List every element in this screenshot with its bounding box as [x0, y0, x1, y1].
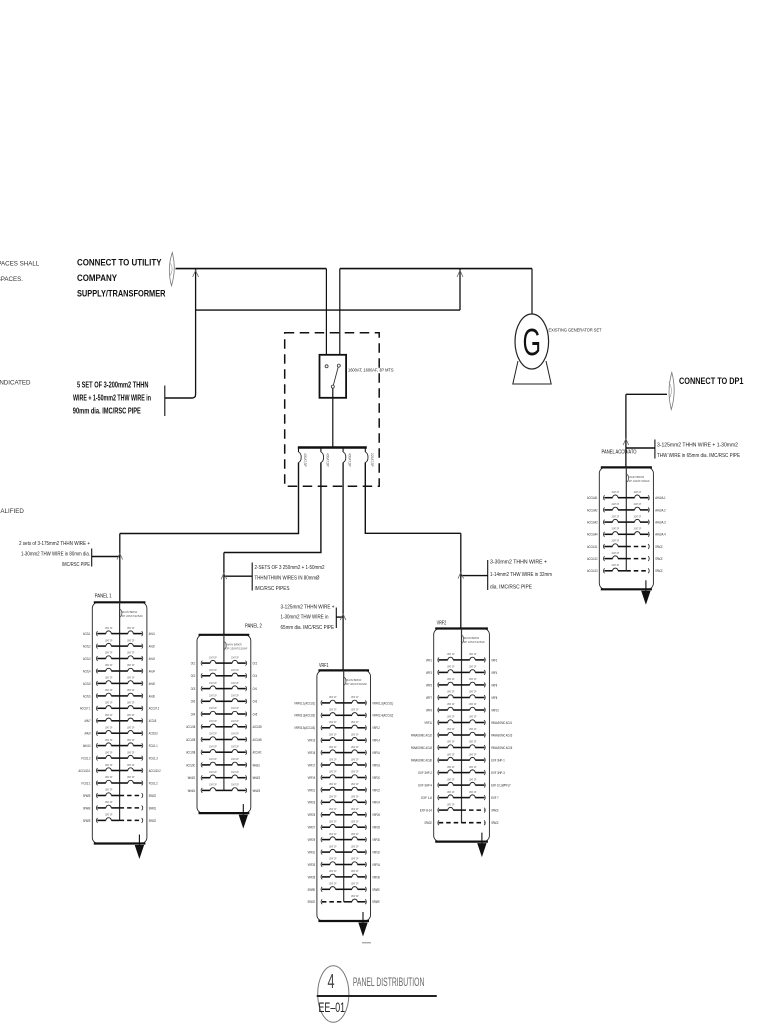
svg-text:20AT 2P: 20AT 2P — [634, 490, 642, 494]
svg-text:VRF2: VRF2 — [491, 658, 497, 662]
wire: MTS output — [332, 388, 334, 447]
svg-text:SPACE: SPACE — [655, 545, 663, 549]
svg-text:15AT 2P: 15AT 2P — [329, 708, 337, 712]
svg-text:15AT 2P: 15AT 2P — [447, 665, 455, 669]
svg-text:VRF01.1(ACCU1): VRF01.1(ACCU1) — [294, 701, 315, 705]
svg-text:15AT 2P: 15AT 2P — [127, 638, 135, 642]
svg-text:15AT 2P: 15AT 2P — [127, 775, 135, 779]
svg-text:EE–01: EE–01 — [319, 999, 346, 1015]
svg-text:20AT 2P: 20AT 2P — [231, 770, 239, 774]
branch circuit row: ACCU4 / AHU4 — [96, 669, 97, 674]
svg-text:EXF 3HP-4: EXF 3HP-4 — [418, 784, 432, 788]
svg-text:CH2: CH2 — [191, 700, 196, 704]
svg-text:ACCU3B: ACCU3B — [186, 751, 196, 755]
svg-text:AHU4: AHU4 — [149, 669, 155, 673]
svg-text:15AT 2P: 15AT 2P — [351, 832, 359, 836]
svg-text:15AT 2P: 15AT 2P — [105, 626, 113, 630]
svg-text:15AT 2P: 15AT 2P — [105, 651, 113, 655]
svg-text:15AT 2P: 15AT 2P — [105, 813, 113, 817]
svg-text:AHU9: AHU9 — [85, 732, 91, 736]
svg-text:AHU1: AHU1 — [149, 632, 155, 636]
svg-text:15AT 2P: 15AT 2P — [329, 832, 337, 836]
svg-text:15AT 2P: 15AT 2P — [127, 626, 135, 630]
svg-text:15AT 2P: 15AT 2P — [447, 790, 455, 794]
svg-text:15AT 2P: 15AT 2P — [329, 807, 337, 811]
svg-text:20AT 2P: 20AT 2P — [634, 502, 642, 506]
svg-text:COMPANY: COMPANY — [77, 273, 117, 283]
svg-text:15AT 2P: 15AT 2P — [127, 676, 135, 680]
junction marker — [457, 271, 463, 278]
svg-text:400AT,3P: 400AT,3P — [348, 453, 352, 467]
svg-text:VRF17: VRF17 — [308, 763, 316, 767]
svg-text:15AT 2P: 15AT 2P — [127, 701, 135, 705]
branch circuit row: SPARE / SPARE — [321, 887, 322, 892]
svg-text:15AT 2P: 15AT 2P — [469, 740, 477, 744]
branch circuit row: ACCU7.1 / ACCU7.2 — [96, 706, 97, 711]
svg-text:VRF25: VRF25 — [308, 813, 316, 817]
svg-text:VRF33: VRF33 — [308, 863, 316, 867]
svg-text:SPACE: SPACE — [655, 569, 663, 573]
svg-text:FCU1.2: FCU1.2 — [149, 781, 158, 785]
svg-text:ACCU1: ACCU1 — [83, 632, 91, 636]
svg-text:VRF6: VRF6 — [491, 683, 497, 687]
svg-text:15AT 2P: 15AT 2P — [351, 757, 359, 761]
svg-text:CONNECT TO UTILITY: CONNECT TO UTILITY — [77, 258, 162, 268]
svg-text:SPARE: SPARE — [83, 806, 91, 810]
svg-text:15AT 2P: 15AT 2P — [447, 690, 455, 694]
svg-text:VRF7: VRF7 — [426, 696, 432, 700]
svg-text:20AT 2P: 20AT 2P — [612, 526, 620, 530]
svg-text:15AT 2P: 15AT 2P — [447, 752, 455, 756]
svg-text:VRF2: VRF2 — [437, 621, 447, 627]
svg-text:ACCU7.1: ACCU7.1 — [80, 707, 91, 711]
svg-text:20AT 2P: 20AT 2P — [612, 502, 620, 506]
svg-text:15AT 2P: 15AT 2P — [105, 800, 113, 804]
breaker CB2 on bus — [320, 449, 322, 453]
branch circuit row: FCU1.2 / FCU1.3 — [96, 756, 97, 761]
svg-text:15AT 2P: 15AT 2P — [105, 676, 113, 680]
svg-text:15AT 2P: 15AT 2P — [329, 819, 337, 823]
svg-text:15AT 2P: 15AT 2P — [329, 695, 337, 699]
svg-text:PANEL 1: PANEL 1 — [95, 594, 112, 600]
panel enclosure — [197, 635, 251, 813]
svg-text:ACCU2: ACCU2 — [83, 644, 91, 648]
panel VRF2 — [411, 621, 512, 858]
svg-text:20AT 2P: 20AT 2P — [231, 744, 239, 748]
svg-text:SPARE: SPARE — [308, 888, 316, 892]
svg-text:ACCU/11: ACCU/11 — [587, 545, 598, 549]
branch circuit row: OC1 / OC2 — [201, 661, 202, 666]
svg-text:15AT 2P: 15AT 2P — [329, 732, 337, 736]
wire: MTS input 1 drop — [325, 269, 327, 355]
svg-text:PANEL 2: PANEL 2 — [245, 624, 262, 630]
svg-text:20AT 2P: 20AT 2P — [231, 681, 239, 685]
svg-text:OC5: OC5 — [191, 687, 196, 691]
main breaker — [224, 641, 226, 650]
branch circuit row: VRF5 / VRF6 — [438, 683, 439, 688]
svg-text:20AT 2P: 20AT 2P — [209, 706, 217, 710]
panel VRF1 — [294, 663, 393, 937]
svg-text:ACCU10.1: ACCU10.1 — [79, 769, 91, 773]
svg-text:VRF4: VRF4 — [491, 671, 497, 675]
svg-text:15AT 2P: 15AT 2P — [105, 713, 113, 717]
branch circuit row: ACCU1 / AHU1 — [96, 631, 97, 636]
branch circuit row: OC5 / CH1 — [201, 686, 202, 691]
svg-text:VRF24: VRF24 — [372, 801, 380, 805]
svg-text:20AT 2P: 20AT 2P — [209, 732, 217, 736]
svg-text:SPACE: SPACE — [491, 821, 499, 825]
svg-text:20AT 2P: 20AT 2P — [231, 719, 239, 723]
svg-text:1-30mm2 THW WIRE in: 1-30mm2 THW WIRE in — [281, 615, 329, 621]
branch circuit row: PANASONIC ACU2 / PANASONIC ACU3 — [438, 733, 439, 738]
svg-text:OC4: OC4 — [253, 674, 258, 678]
svg-text:VRF9: VRF9 — [426, 708, 432, 712]
svg-text:15AT 2P: 15AT 2P — [447, 652, 455, 656]
svg-text:20AT 2P: 20AT 2P — [231, 783, 239, 787]
svg-text:15AT 2P: 15AT 2P — [329, 795, 337, 799]
svg-text:PANEL ACCU/ATO: PANEL ACCU/ATO — [602, 450, 637, 456]
svg-text:20AT 2P: 20AT 2P — [209, 681, 217, 685]
svg-text:15AT 2P: 15AT 2P — [329, 720, 337, 724]
svg-text:VRF29: VRF29 — [308, 838, 316, 842]
svg-text:VRF12: VRF12 — [372, 726, 380, 730]
svg-text:VRF32: VRF32 — [372, 850, 380, 854]
branch circuit row: VRF23 / VRF24 — [321, 800, 322, 805]
svg-text:WH&E1: WH&E1 — [253, 763, 261, 767]
svg-text:ACCU/A3: ACCU/A3 — [587, 520, 598, 524]
svg-text:IMC/RSC PIPES: IMC/RSC PIPES — [255, 586, 290, 592]
branch circuit row: ACCU/11 / SPACE — [603, 544, 604, 549]
svg-text:AHU/A.3: AHU/A.3 — [655, 520, 666, 524]
svg-text:VRF18: VRF18 — [372, 763, 380, 767]
panel enclosure — [317, 670, 371, 921]
svg-text:15AT 2P: 15AT 2P — [105, 688, 113, 692]
svg-text:20AT 2P: 20AT 2P — [209, 744, 217, 748]
svg-text:SPARE: SPARE — [372, 900, 380, 904]
branch circuit row: EXF 8-14 / SPACE — [438, 808, 439, 813]
svg-text:15AT 2P: 15AT 2P — [127, 725, 135, 729]
svg-text:15AT 2P: 15AT 2P — [127, 663, 135, 667]
svg-text:SPARE: SPARE — [83, 819, 91, 823]
wire: panel bus riser — [461, 629, 463, 823]
svg-text:VRF8: VRF8 — [491, 696, 497, 700]
svg-text:FCU1.1: FCU1.1 — [149, 744, 158, 748]
wire: vertical tie at right — [459, 269, 461, 311]
svg-text:VRF23: VRF23 — [308, 801, 316, 805]
panel enclosure — [599, 467, 653, 589]
svg-text:WH&E2: WH&E2 — [188, 776, 196, 780]
svg-text:VRF02.4(ACCU2): VRF02.4(ACCU2) — [372, 714, 393, 718]
wire: MTS input 2 drop — [339, 269, 341, 355]
branch circuit row: ACCU5 / AHU5 — [96, 681, 97, 686]
svg-text:ACCU6: ACCU6 — [83, 694, 91, 698]
svg-text:15AT 2P: 15AT 2P — [447, 677, 455, 681]
svg-text:15AT 2P: 15AT 2P — [351, 745, 359, 749]
svg-text:20AT 2P: 20AT 2P — [612, 539, 620, 543]
svg-text:3P 100AT/100AF: 3P 100AT/100AF — [629, 479, 650, 483]
svg-text:EXF 3HP-2: EXF 3HP-2 — [418, 771, 432, 775]
breaker CB3 on bus — [342, 449, 344, 453]
stray tick — [362, 942, 371, 944]
branch circuit row: FCU2.1 / FCU1.2 — [96, 781, 97, 786]
svg-text:225AT,3P: 225AT,3P — [370, 453, 374, 467]
svg-text:15AT 2P: 15AT 2P — [469, 715, 477, 719]
branch circuit row: VRF17 / VRF18 — [321, 763, 322, 768]
main breaker — [344, 677, 346, 686]
svg-text:2-SETS OF 3 250mm2 + 1-50mm2: 2-SETS OF 3 250mm2 + 1-50mm2 — [255, 565, 325, 571]
svg-text:SPACE: SPACE — [149, 819, 157, 823]
svg-text:15AT 2P: 15AT 2P — [447, 740, 455, 744]
svg-text:EXF 8-14: EXF 8-14 — [420, 809, 432, 813]
branch circuit row: VRF31 / VRF32 — [321, 850, 322, 855]
svg-text:THW WIRE in 65mm dia. IMC/RSC: THW WIRE in 65mm dia. IMC/RSC PIPE — [657, 453, 740, 459]
svg-text:AHU3: AHU3 — [149, 657, 155, 661]
svg-text:15AT 2P: 15AT 2P — [329, 745, 337, 749]
svg-text:15AT 2P: 15AT 2P — [351, 695, 359, 699]
svg-text:15AT 2P: 15AT 2P — [105, 763, 113, 767]
svg-text:15AT 2P: 15AT 2P — [469, 677, 477, 681]
svg-text:15AT 2P: 15AT 2P — [447, 765, 455, 769]
svg-text:15AT 2P: 15AT 2P — [329, 882, 337, 886]
svg-text:15AT 2P: 15AT 2P — [351, 732, 359, 736]
svg-text:dia. IMC/RSC PIPE: dia. IMC/RSC PIPE — [490, 585, 532, 591]
branch circuit row: VRF13 / VRF14 — [321, 738, 322, 743]
svg-text:PANASONIC ACU2: PANASONIC ACU2 — [411, 733, 432, 737]
branch circuit row: ACCU3C / WH&amp;E1 — [201, 763, 202, 768]
svg-text:THHN/THWN WIRES IN 80mmØ: THHN/THWN WIRES IN 80mmØ — [255, 575, 321, 581]
branch circuit row: VRF9 / VRF10 — [438, 708, 439, 713]
wire: utility line to MTS input 1 — [176, 268, 327, 270]
svg-text:15AT 2P: 15AT 2P — [105, 638, 113, 642]
arrow to utility supply — [169, 253, 174, 286]
svg-text:AHU/A.4: AHU/A.4 — [655, 533, 666, 537]
svg-text:AHU7: AHU7 — [85, 719, 91, 723]
wire: panel bus riser — [625, 467, 627, 570]
svg-text:OC3: OC3 — [191, 674, 196, 678]
svg-text:PANASONIC ACU6: PANASONIC ACU6 — [411, 758, 432, 762]
branch circuit row: WH&amp;E4 / WH&amp;E5 — [201, 788, 202, 793]
wire: cross tie (lower horizontal) — [196, 309, 460, 311]
panel enclosure — [434, 629, 490, 842]
svg-text:1-14mm2 THW WIRE in 32mm: 1-14mm2 THW WIRE in 32mm — [490, 572, 552, 578]
svg-text:15AT 2P: 15AT 2P — [105, 788, 113, 792]
svg-text:ACCU/A4: ACCU/A4 — [587, 533, 598, 537]
branch circuit row: CH2 / CH3 — [201, 699, 202, 704]
svg-text:15AT 2P: 15AT 2P — [469, 665, 477, 669]
svg-text:2 sets of 3-175mm2 THHN WIRE +: 2 sets of 3-175mm2 THHN WIRE + — [19, 541, 90, 547]
svg-text:15AT 2P: 15AT 2P — [329, 757, 337, 761]
generator G1 circle — [515, 314, 549, 369]
branch circuit row: SPACE / SPACE — [438, 820, 439, 825]
svg-text:O SPACES.: O SPACES. — [0, 276, 23, 283]
svg-text:EXF 10,1WPFLY: EXF 10,1WPFLY — [491, 784, 511, 788]
svg-text:15AT 2P: 15AT 2P — [127, 750, 135, 754]
branch circuit row: ACCU2 / AHU2 — [96, 644, 97, 649]
svg-text:VRF3: VRF3 — [426, 671, 432, 675]
branch circuit row: EXF 3HP-2 / EXF 3HP-3 — [438, 770, 439, 775]
svg-text:ACCU/13: ACCU/13 — [587, 569, 598, 573]
branch circuit row: SPARE / SPACE — [96, 818, 97, 823]
svg-text:15AT 2P: 15AT 2P — [105, 775, 113, 779]
svg-text:VRF5: VRF5 — [426, 683, 432, 687]
feed-through arrow — [138, 835, 140, 846]
svg-text:20AT 2P: 20AT 2P — [231, 757, 239, 761]
svg-text:VRF36: VRF36 — [372, 875, 380, 879]
svg-text:20AT 2P: 20AT 2P — [231, 655, 239, 659]
branch circuit row: ACCU10.1 / ACCU10.2 — [96, 768, 97, 773]
branch circuit row: VRF3 / VRF4 — [438, 670, 439, 675]
svg-text:WH&E4: WH&E4 — [188, 789, 196, 793]
branch circuit row: VRF35 / VRF36 — [321, 875, 322, 880]
branch circuit row: ACCU/A2 / AHU/A.2 — [603, 508, 604, 513]
svg-text:VRF28: VRF28 — [372, 826, 380, 830]
svg-text:PANASONIC ACU4: PANASONIC ACU4 — [411, 746, 432, 750]
svg-text:VRF19: VRF19 — [308, 776, 316, 780]
wire: CB4 to VRF2 — [365, 463, 461, 534]
svg-text:20AT 2P: 20AT 2P — [612, 514, 620, 518]
svg-text:15AT 2P: 15AT 2P — [469, 702, 477, 706]
svg-text:ACCU4C: ACCU4C — [253, 751, 262, 755]
svg-text:15AT 2P: 15AT 2P — [127, 688, 135, 692]
wire: Panel 2 feeder drop — [223, 553, 225, 635]
svg-text:ACCU/A2: ACCU/A2 — [587, 508, 598, 512]
svg-text:ACCU10.2: ACCU10.2 — [149, 769, 161, 773]
svg-text:IMC/RSC PIPE: IMC/RSC PIPE — [62, 562, 90, 568]
svg-text:20AT 2P: 20AT 2P — [209, 757, 217, 761]
svg-text:15AT 2P: 15AT 2P — [351, 844, 359, 848]
svg-text:WIRE + 1-50mm2 THW WIRE in: WIRE + 1-50mm2 THW WIRE in — [73, 394, 151, 403]
svg-text:VRF15: VRF15 — [308, 751, 316, 755]
svg-text:ACCU4: ACCU4 — [83, 669, 91, 673]
svg-text:15AT 2P: 15AT 2P — [447, 777, 455, 781]
branch circuit row: EXF 3HP-4 / EXF 10,1WPFLY — [438, 783, 439, 788]
svg-text:15AT 2P: 15AT 2P — [105, 725, 113, 729]
svg-text:20AT 2P: 20AT 2P — [231, 668, 239, 672]
svg-text:CH3: CH3 — [253, 700, 258, 704]
svg-text:UALIFIED: UALIFIED — [0, 508, 24, 515]
svg-text:VRF26: VRF26 — [372, 813, 380, 817]
svg-text:15AT 2P: 15AT 2P — [351, 819, 359, 823]
svg-text:5 SET OF 3-200mm2 THHN: 5 SET OF 3-200mm2 THHN — [77, 381, 149, 390]
svg-text:SPACE: SPACE — [491, 809, 499, 813]
svg-text:65mm dia. IMC/RSC PIPE: 65mm dia. IMC/RSC PIPE — [281, 625, 335, 631]
branch circuit row: VRF15 / VRF16 — [321, 750, 322, 755]
svg-text:FCU1.2: FCU1.2 — [82, 757, 91, 761]
bus bar — [298, 446, 367, 448]
branch circuit row: SPARE / SPACE — [96, 793, 97, 798]
svg-text:VRF20: VRF20 — [372, 776, 380, 780]
svg-text:20AT 2P: 20AT 2P — [231, 732, 239, 736]
svg-text:ACCU10: ACCU10 — [149, 732, 158, 736]
branch circuit row: EXF 1-6 / EXF 7 — [438, 795, 439, 800]
svg-text:CONNECT TO DP1: CONNECT TO DP1 — [679, 376, 744, 386]
svg-text:15AT 2P: 15AT 2P — [127, 738, 135, 742]
feed-through arrow — [242, 804, 244, 815]
svg-text:15AT 2P: 15AT 2P — [105, 738, 113, 742]
title bubble: detail 4 / EE-01 — [318, 966, 349, 1023]
feed-through arrow — [362, 912, 364, 923]
breaker CB4 on bus — [364, 449, 366, 453]
svg-text:OC2: OC2 — [253, 662, 258, 666]
svg-text:CH5: CH5 — [253, 712, 258, 716]
svg-text:SPACE: SPACE — [149, 794, 157, 798]
wire: CB1 to Panel 1 — [120, 463, 299, 534]
svg-text:EXF 7: EXF 7 — [491, 796, 499, 800]
svg-text:15AT 2P: 15AT 2P — [127, 713, 135, 717]
wire: panel bus riser — [343, 670, 345, 901]
svg-text:ACCU1B: ACCU1B — [186, 725, 196, 729]
svg-text:15AT 2P: 15AT 2P — [351, 894, 359, 898]
svg-text:15AT 2P: 15AT 2P — [329, 869, 337, 873]
branch circuit row: PANASONIC ACU4 / PANASONIC ACU5 — [438, 745, 439, 750]
branch circuit row: VRF25 / VRF26 — [321, 812, 322, 817]
svg-text:EXISTING GENERATOR SET: EXISTING GENERATOR SET — [549, 328, 602, 334]
branch circuit row: VRF19 / VRF20 — [321, 775, 322, 780]
svg-text:15AT 2P: 15AT 2P — [105, 701, 113, 705]
branch circuit row: AHU10 / FCU1.1 — [96, 743, 97, 748]
branch circuit row: SPACE / SPARE — [321, 899, 322, 904]
svg-text:VRF35: VRF35 — [308, 875, 316, 879]
svg-text:AHU5: AHU5 — [149, 682, 155, 686]
svg-text:VRF11: VRF11 — [424, 721, 432, 725]
svg-text:15AT 2P: 15AT 2P — [329, 782, 337, 786]
panel PANEL 1 — [79, 594, 161, 860]
svg-text:PANASONIC ACU1: PANASONIC ACU1 — [491, 721, 512, 725]
branch circuit row: PANASONIC ACU6 / EXF 3HP-1 — [438, 758, 439, 763]
MTS enclosure (dashed) — [285, 333, 380, 487]
svg-text:AHU/A.1: AHU/A.1 — [655, 496, 666, 500]
svg-text:ACCU5: ACCU5 — [83, 682, 91, 686]
main breaker — [462, 635, 464, 644]
svg-text:15AT 2P: 15AT 2P — [447, 802, 455, 806]
svg-text:20AT 2P: 20AT 2P — [209, 783, 217, 787]
wire: Panel 1 feeder drop — [119, 534, 121, 603]
svg-text:VRF1: VRF1 — [319, 663, 329, 669]
svg-text:VRF27: VRF27 — [308, 826, 316, 830]
branch circuit row: CH4 / CH5 — [201, 712, 202, 717]
svg-text:3P 400AT/400AF: 3P 400AT/400AF — [346, 682, 367, 686]
svg-text:20AT 2P: 20AT 2P — [612, 490, 620, 494]
svg-text:ACCU/12: ACCU/12 — [587, 557, 598, 561]
panel ACCU/ATO — [587, 467, 666, 604]
svg-text:PANASONIC ACU5: PANASONIC ACU5 — [491, 746, 512, 750]
wire: CB2 to Panel 2 — [224, 463, 321, 553]
svg-text:VRF02.3(ACCU2): VRF02.3(ACCU2) — [294, 714, 315, 718]
svg-text:SPACE: SPACE — [655, 557, 663, 561]
main breaker — [120, 609, 122, 618]
svg-text:15AT 2P: 15AT 2P — [351, 795, 359, 799]
svg-text:G: G — [523, 320, 541, 363]
svg-text:EXF 3HP-1: EXF 3HP-1 — [491, 758, 505, 762]
svg-text:20AT 2P: 20AT 2P — [634, 514, 642, 518]
svg-text:15AT 2P: 15AT 2P — [469, 765, 477, 769]
generator base (trapezoid) — [513, 361, 551, 384]
svg-text:15AT 2P: 15AT 2P — [469, 690, 477, 694]
svg-text:15AT 2P: 15AT 2P — [329, 844, 337, 848]
svg-text:ACCU8: ACCU8 — [149, 719, 157, 723]
branch circuit row: VRF02.3(ACCU2) / VRF02.4(ACCU2) — [321, 713, 322, 718]
branch circuit row: VRF27 / VRF28 — [321, 825, 322, 830]
wire: panel bus riser — [223, 635, 225, 791]
panel enclosure — [92, 602, 147, 843]
svg-text:3P 150AT/150AF: 3P 150AT/150AF — [226, 646, 247, 650]
branch circuit row: ACCU6 / AHU6 — [97, 694, 98, 699]
svg-text:FCU1.3: FCU1.3 — [149, 757, 158, 761]
svg-text:VRF30: VRF30 — [372, 838, 380, 842]
svg-text:AHU/A.2: AHU/A.2 — [655, 508, 666, 512]
svg-text:15AT 2P: 15AT 2P — [351, 720, 359, 724]
svg-text:15AT 2P: 15AT 2P — [469, 777, 477, 781]
